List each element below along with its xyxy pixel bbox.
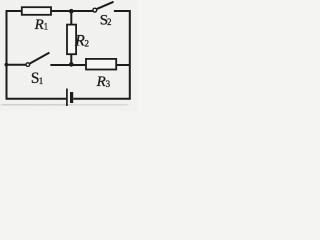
svg-text:2: 2 (107, 17, 112, 27)
svg-text:3: 3 (106, 79, 111, 89)
svg-text:R: R (96, 74, 106, 90)
svg-text:1: 1 (39, 76, 44, 86)
svg-text:2: 2 (85, 38, 90, 48)
svg-text:R: R (74, 33, 85, 50)
svg-text:1: 1 (44, 22, 49, 32)
svg-text:R: R (34, 17, 44, 33)
